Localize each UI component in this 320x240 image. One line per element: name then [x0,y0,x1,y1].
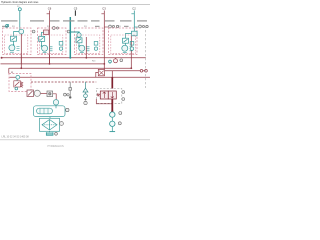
title rule [0,4,150,6]
filter flow line [49,120,51,131]
sphere S2 [42,45,48,51]
filter callout [60,122,64,126]
accumulator stub on bus A [114,58,118,63]
relief module dashed enclosure [9,74,31,92]
wire C2 down feed [133,11,135,32]
small caption row labels [1,20,147,27]
transducer T1 [19,29,24,34]
tank callout [55,132,58,135]
pressure regulator block [96,69,105,77]
damper valve V2 [39,36,45,41]
connector callout pair near C2 [139,25,149,28]
damper valve V3 [76,38,82,43]
wire between circles [111,118,113,121]
callout [119,112,122,115]
wire [13,41,15,45]
return assembly square [27,90,34,97]
filter mesh line [42,124,57,126]
damper valve V1 [11,36,17,41]
svg-text:Ret: Ret [92,60,96,63]
node C7 top port of strut block 1 [18,8,21,30]
wire [125,43,127,46]
solenoid manifold dashed enclosure [96,89,122,104]
pump motor capsule [37,108,53,114]
junction dot on teal supply [69,31,71,33]
wire reg drain [96,72,99,77]
restrictor W on bus C [16,75,20,79]
secondary damper elements block4 [130,42,134,51]
block3 internals [69,31,100,58]
coupling symbol right [140,70,147,73]
bus A supply gallery [1,57,146,59]
block2 internals [39,30,63,54]
bus C low pressure return [9,67,132,69]
wire into pump circle [53,94,56,100]
valve spring [98,94,101,96]
pump unit enclosure [34,106,66,117]
wire cross link [111,71,113,77]
drain callouts [64,93,70,96]
strut block 2 dashed enclosure [38,28,67,55]
svg-text:C6: C6 [48,6,52,10]
wire maroon out [20,34,22,64]
sphere S4 [122,45,128,51]
check valve callout [84,101,87,104]
valve drain L line [96,99,112,104]
sphere S3 [79,45,85,51]
relief valve RV1 [14,79,23,90]
svg-text:Hydraulic circuit diagram and: Hydraulic circuit diagram and notes [1,1,39,4]
wire [41,41,43,46]
accessory icon left [6,24,9,27]
sphere S1 [9,45,15,51]
relief spring icon [130,47,133,51]
inner dashed sub-box [77,35,100,54]
block4 internals [111,31,137,68]
connector block [44,30,49,34]
bus B return gallery [1,63,105,65]
connector block [132,31,138,36]
filter element diamond [42,120,57,131]
end bar [111,127,113,131]
pump inlet port circle [53,100,58,105]
strut block 4 dashed enclosure [109,28,138,55]
wire teal branch into block3 [70,32,79,33]
svg-text:C3: C3 [102,6,106,10]
damper port circle lower [110,121,115,126]
secondary damper elements block3 [94,42,98,51]
wire C3 down feed [103,11,105,70]
filter enclosure [40,118,60,131]
wire teal branch [14,32,19,37]
inner dashed sub-box [5,35,28,54]
wire feed to solenoid manifold [111,77,113,88]
wire C3 elbow tick [101,13,104,15]
block1 internals [5,29,28,64]
block id labels [12,26,121,28]
footer rule [0,139,150,141]
check valve on pilot line [83,82,88,101]
sphere base ticks [10,51,127,53]
drain port stub [69,82,72,98]
callout [118,122,121,125]
relief spring icon [50,47,53,51]
chassis split dashed boundary [145,26,147,88]
relief spring icon [17,47,20,51]
svg-text:C5: C5 [74,6,78,10]
pump outlet tick [55,105,57,108]
junction dot [111,110,113,112]
wire manifold down thick [111,99,113,112]
wire main teal supply [69,17,71,58]
relief spring icon [87,47,90,51]
wire maroon out [85,37,87,58]
callout right of block2 [67,30,70,33]
return assembly accumulator [34,90,40,96]
wire drop block2 to bus B [49,55,51,65]
wire gallery D to coupling [105,70,140,72]
pump callout [66,108,69,111]
inner dashed sub-box [40,35,63,54]
wire teal branch [42,32,44,36]
secondary damper elements block2 [59,42,63,51]
tee callout on bus B [109,60,112,64]
directional valve body [100,91,116,99]
regulator valve body [98,69,104,75]
valve callouts right [122,91,125,101]
svg-text:HYDRAULICS: HYDRAULICS [48,145,64,148]
accumulator callout [120,59,123,62]
junction dots [20,67,22,69]
wire C6 elbow tick [47,13,50,15]
damper valve V4 [123,38,129,43]
inner dashed sub-box [111,35,136,54]
damper port circle upper [110,112,115,117]
svg-text:C2: C2 [132,6,136,10]
wire filter to tank [49,131,51,132]
wire C6 down feed [49,11,51,65]
connector callout pair near C6 [52,27,58,30]
inlet check valve block [47,91,53,97]
tank symbol [46,132,53,135]
transducer T3 [77,33,81,37]
connector callout pair near C3 [109,25,119,28]
wire return to pump [41,92,47,94]
wire pump to filter [49,117,51,119]
wire C5 stub [74,10,76,15]
wire maroon out [130,36,132,68]
pump capsule detail [40,109,48,114]
strut block 1 dashed enclosure [3,28,32,55]
svg-text:LRL 10 02 34 S3 1465 08: LRL 10 02 34 S3 1465 08 [2,136,30,139]
wire teal branch [126,34,132,39]
wire drop block1 to bus B [20,55,22,69]
callout right of block1 [32,30,35,33]
wire [78,43,80,47]
strut block 3 dashed enclosure [75,28,104,55]
wire C2 elbow tick [131,13,134,15]
pilot line dashed [31,81,96,83]
